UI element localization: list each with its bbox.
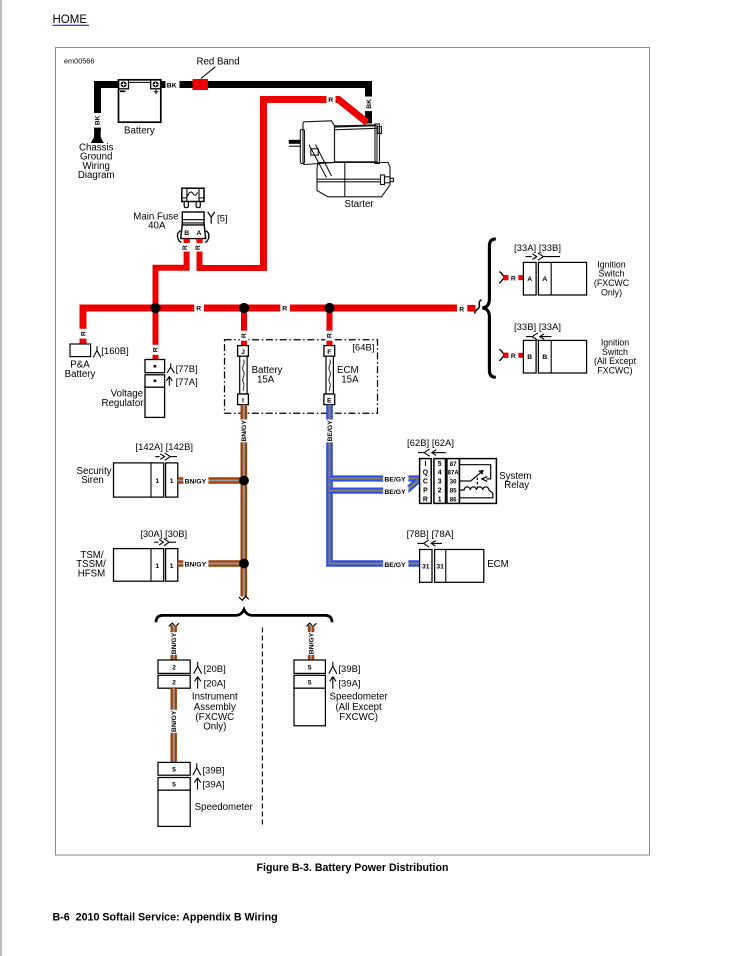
wire R main bus (red): [83, 308, 457, 347]
svg-text:1: 1: [170, 563, 174, 570]
svg-text:Q: Q: [423, 470, 429, 477]
ECM body: [435, 550, 484, 583]
connector 39B left: [193, 763, 225, 776]
wire BE/GY trunk tan tracer: [330, 405, 420, 564]
right branch gray tracer: [310, 625, 312, 660]
mate arrow 62B-62A: [418, 449, 446, 456]
svg-text:Only): Only): [601, 287, 622, 297]
junction dot trunk-TSM: [239, 559, 249, 569]
svg-text:Diagram: Diagram: [78, 170, 115, 181]
wire BE/GY relay branch 1 (blue): [330, 475, 420, 481]
junction dot trunk-siren: [239, 476, 249, 486]
ignition switch 2 body: [538, 340, 586, 373]
label R rotated on VR wire: [151, 345, 160, 355]
relay terminal numbers column: [447, 459, 460, 504]
label BE/GY ECM: [383, 559, 408, 569]
svg-text:BE/GY: BE/GY: [384, 489, 406, 496]
label BE/GY branch 1: [383, 474, 408, 484]
svg-text:[39B]: [39B]: [338, 664, 360, 675]
svg-text:B: B: [184, 230, 189, 237]
svg-text:1: 1: [155, 563, 159, 570]
svg-text:R: R: [511, 353, 516, 360]
svg-text:2: 2: [438, 488, 442, 495]
svg-text:[64B]: [64B]: [352, 342, 374, 353]
svg-text:Only): Only): [203, 722, 226, 733]
svg-text:87A: 87A: [448, 470, 460, 477]
svg-text:1: 1: [155, 478, 159, 485]
speedo2 connector pin 5 upper: [294, 660, 325, 673]
svg-text:30: 30: [450, 479, 457, 486]
svg-text:5: 5: [172, 782, 176, 789]
svg-text:Speedometer: Speedometer: [195, 802, 254, 813]
svg-text:[39A]: [39A]: [202, 779, 224, 790]
wire stub R ignition 1: [499, 272, 523, 284]
wire R fuse B to bus (red): [156, 252, 187, 312]
red stub pin B: [184, 239, 190, 243]
chassis ground label: [78, 142, 115, 181]
fuse block 64B dashed box: [225, 340, 378, 413]
svg-text:R: R: [328, 97, 333, 104]
relay U1 body: [460, 459, 497, 504]
wire BN/GY trunk gray tracer: [243, 405, 245, 597]
svg-text:R: R: [182, 245, 189, 250]
svg-text:2: 2: [172, 664, 176, 671]
svg-text:R: R: [241, 333, 248, 338]
wire BN/GY TSM gray tracer: [178, 563, 242, 565]
ECM connector pin 31: [420, 550, 432, 583]
svg-text:[20B]: [20B]: [204, 664, 226, 675]
mate arrow 78B-78A: [417, 540, 442, 547]
svg-text:F: F: [327, 349, 331, 356]
svg-text:4: 4: [438, 470, 442, 477]
ECM fuse 15A: [324, 346, 359, 405]
relay connector numbers column: [434, 459, 446, 504]
connector 77B: [167, 363, 198, 374]
system relay label: [499, 471, 531, 491]
branch 2 tan tracer: [330, 481, 418, 491]
svg-text:15A: 15A: [341, 374, 359, 385]
svg-text:BE/GY: BE/GY: [384, 477, 406, 484]
svg-text:[33B] [33A]: [33B] [33A]: [514, 322, 561, 333]
svg-text:R: R: [195, 245, 202, 250]
label BN/GY siren: [183, 476, 208, 486]
svg-text:R: R: [80, 331, 87, 336]
svg-text:31: 31: [422, 563, 430, 570]
svg-text:2: 2: [172, 679, 176, 686]
mate arrow 142A-142B: [155, 453, 177, 460]
svg-text:I: I: [242, 397, 244, 404]
wire BN/GY siren gray tracer: [178, 480, 242, 482]
wire BN/GY right branch (brown): [308, 625, 314, 660]
svg-text:[160B]: [160B]: [101, 346, 128, 357]
wire stub R ignition 2: [499, 349, 523, 361]
trunk end break symbol: [239, 596, 249, 600]
connector 20B: [194, 662, 226, 675]
label R rotated battery fuse: [240, 331, 249, 341]
svg-text:R: R: [459, 306, 464, 313]
svg-text:Siren: Siren: [81, 475, 104, 486]
P&A battery box: [65, 344, 96, 380]
svg-text:[30A] [30B]: [30A] [30B]: [140, 529, 187, 540]
connector 39A left: [194, 778, 224, 791]
voltage regulator: [101, 360, 164, 418]
svg-text:[77B]: [77B]: [176, 364, 198, 375]
label R on bus right: [280, 304, 290, 313]
speedometer connector pin 5 upper: [158, 762, 190, 775]
label BN/GY trunk: [238, 420, 249, 443]
bus end break to ignition: [459, 300, 481, 314]
svg-text:P: P: [423, 488, 428, 495]
TSM label: [76, 550, 106, 580]
left branch break symbol: [169, 623, 179, 626]
connector 160B: [93, 346, 129, 358]
instrument connector pin 2 lower: [158, 675, 190, 688]
label BK rotated on starter drop: [364, 97, 373, 112]
svg-text:Red Band: Red Band: [197, 57, 240, 68]
label BK rotated on ground wire: [93, 113, 102, 128]
label R on starter wire: [327, 95, 336, 104]
svg-text:A: A: [196, 230, 201, 237]
speedometer body box: [158, 790, 190, 826]
wire BN/GY left branch lower (brown): [170, 688, 176, 762]
svg-text:R: R: [196, 306, 201, 313]
main fuse label: [133, 211, 178, 231]
svg-text:15A: 15A: [257, 374, 275, 385]
svg-text:BN/GY: BN/GY: [171, 710, 178, 732]
svg-text:R: R: [423, 496, 428, 503]
connector 39B right: [329, 662, 361, 675]
connector 77A: [166, 376, 197, 387]
svg-text:5: 5: [172, 767, 176, 774]
svg-text:BN/GY: BN/GY: [185, 562, 207, 569]
svg-text:B: B: [527, 354, 532, 361]
label BK on battery wire: [166, 80, 180, 89]
wire BK battery main (black): [98, 85, 369, 131]
label R on bus left: [194, 304, 204, 313]
svg-text:BN/GY: BN/GY: [185, 479, 207, 486]
speedometer 2 label: [330, 692, 389, 724]
svg-text:BN/GY: BN/GY: [241, 420, 248, 442]
speedo2 connector pin 5 lower: [294, 675, 325, 688]
svg-text:BK: BK: [366, 99, 373, 109]
security siren label: [77, 466, 112, 486]
svg-text:Relay: Relay: [504, 480, 529, 491]
connector 39A right: [330, 677, 361, 690]
svg-text:Figure B-3. Battery Power Dist: Figure B-3. Battery Power Distribution: [257, 862, 449, 874]
wire R to battery fuse (red): [241, 305, 247, 346]
mate arrow 30A-30B: [154, 539, 176, 546]
svg-text:em00566: em00566: [64, 57, 94, 66]
battery BATT: [119, 80, 161, 137]
svg-text:86: 86: [450, 496, 457, 503]
diagram frame: [56, 48, 650, 856]
label BN/GY TSM: [183, 559, 208, 569]
instrument connector pin 2 upper: [158, 660, 190, 673]
junction dot bus-battery fuse: [239, 303, 249, 313]
svg-text:J: J: [241, 349, 245, 356]
svg-text:FXCWC): FXCWC): [339, 712, 378, 723]
ignition switch 1 body: [538, 262, 586, 295]
svg-text:B-6 2010 Softail Service: App: B-6 2010 Softail Service: Appendix B Wir…: [53, 911, 278, 923]
svg-text:1: 1: [170, 478, 174, 485]
svg-text:1: 1: [438, 496, 442, 503]
svg-text:A: A: [527, 276, 532, 283]
page left edge line: [0, 0, 2, 956]
HOME link: [53, 14, 90, 26]
label BE/GY trunk: [324, 420, 335, 443]
chassis ground symbol: [91, 130, 104, 143]
relay connector letters column: [420, 459, 432, 504]
wire R to voltage regulator (red): [153, 305, 159, 360]
svg-text:31: 31: [436, 563, 444, 570]
svg-text:BN/GY: BN/GY: [308, 632, 315, 654]
speedometer 2 body box: [294, 688, 325, 726]
svg-text:Battery: Battery: [124, 126, 155, 137]
svg-text:40A: 40A: [148, 221, 166, 232]
svg-text:[33A] [33B]: [33A] [33B]: [514, 243, 561, 254]
wire BN/GY TSM (brown): [178, 560, 242, 566]
label BE/GY branch 2: [383, 486, 408, 496]
main fuse connector housing: [177, 225, 209, 243]
connector 20A: [195, 677, 226, 690]
instrument assembly label: [192, 692, 238, 733]
right branch break symbol: [306, 623, 316, 626]
svg-text:3: 3: [438, 479, 442, 486]
red stub pin A: [196, 239, 202, 243]
label BN/GY left branch: [168, 632, 179, 655]
svg-text:BE/GY: BE/GY: [327, 420, 334, 442]
main fuse holder: [182, 212, 204, 225]
label R rotated on P&A drop: [79, 329, 88, 339]
svg-text:I: I: [424, 461, 426, 468]
TSM box: [114, 549, 164, 582]
wire R starter feed (red): [264, 100, 368, 272]
svg-text:[142A] [142B]: [142A] [142B]: [136, 442, 194, 453]
svg-text:[39A]: [39A]: [338, 678, 360, 689]
wire BN/GY trunk (brown): [241, 405, 248, 597]
TSM connector pin 1: [166, 549, 178, 582]
svg-text:[5]: [5]: [217, 214, 228, 225]
svg-text:R: R: [153, 347, 160, 352]
svg-text:BK: BK: [167, 82, 177, 89]
svg-text:Battery: Battery: [65, 369, 96, 380]
svg-text:[20A]: [20A]: [204, 678, 226, 689]
svg-text:A: A: [542, 276, 547, 283]
svg-text:[78B] [78A]: [78B] [78A]: [407, 529, 454, 540]
left branch upper gray tracer: [173, 625, 175, 660]
ignition switch 1 label: [594, 259, 630, 297]
svg-text:Starter: Starter: [345, 199, 375, 210]
starter motor drawing: [289, 121, 394, 197]
svg-text:[39B]: [39B]: [202, 766, 224, 777]
svg-text:85: 85: [450, 488, 457, 495]
wire BN/GY siren (brown): [178, 477, 242, 483]
wire BE/GY relay branch 2 (blue): [330, 481, 418, 491]
svg-text:R: R: [511, 275, 516, 282]
svg-text:ECM: ECM: [487, 559, 509, 570]
svg-text:5: 5: [438, 461, 442, 468]
label BN/GY left branch lower: [168, 710, 179, 733]
brace ignition switches: [482, 239, 495, 377]
svg-text:HFSM: HFSM: [78, 568, 105, 579]
wire R to ECM fuse (red): [327, 305, 333, 346]
junction dot bus-VR: [150, 303, 160, 313]
svg-text:HOME: HOME: [53, 14, 88, 26]
mate arrow 33B-33A: [526, 333, 552, 340]
label R rotated ECM fuse: [325, 331, 334, 341]
red band marker: [193, 79, 209, 90]
ignition switch 1 connector pin A: [523, 262, 536, 295]
svg-text:BK: BK: [95, 115, 102, 125]
svg-text:Regulator: Regulator: [101, 398, 144, 409]
brace lower distribution: [156, 609, 332, 622]
svg-text:87: 87: [450, 461, 457, 468]
svg-text:[77A]: [77A]: [176, 377, 198, 388]
dashed separator line: [261, 628, 263, 828]
svg-text:E: E: [327, 397, 332, 404]
speedometer connector pin 5 lower: [158, 778, 190, 791]
svg-text:R: R: [327, 333, 334, 338]
siren connector pin 1: [166, 463, 178, 497]
svg-text:C: C: [423, 479, 428, 486]
battery fuse 15A: [238, 346, 283, 405]
svg-text:B: B: [542, 354, 547, 361]
wire BN/GY left branch upper (brown): [170, 625, 176, 660]
svg-text:BE/GY: BE/GY: [384, 562, 406, 569]
mate arrow 33A-33B: [526, 253, 560, 260]
svg-text:5: 5: [308, 664, 312, 671]
wire BE/GY trunk (blue): [330, 405, 420, 564]
left branch lower gray tracer: [173, 688, 175, 762]
label BN/GY right branch: [306, 632, 317, 655]
ignition switch 2 label: [594, 338, 637, 376]
main fuse blade symbol: [182, 188, 204, 208]
svg-text:BN/GY: BN/GY: [171, 632, 178, 654]
red band callout: [197, 57, 240, 79]
svg-text:FXCWC): FXCWC): [597, 366, 632, 376]
connector Y [5]: [208, 212, 228, 225]
svg-text:R: R: [282, 306, 287, 313]
ignition switch 2 connector pin B: [523, 340, 536, 373]
svg-text:[62B] [62A]: [62B] [62A]: [407, 438, 454, 449]
security siren box: [114, 463, 164, 497]
svg-text:5: 5: [308, 679, 312, 686]
junction dot bus-ECM fuse: [324, 303, 334, 313]
branch 1 tan tracer: [330, 478, 420, 480]
wire R fuse A to starter feed (red): [200, 252, 264, 269]
